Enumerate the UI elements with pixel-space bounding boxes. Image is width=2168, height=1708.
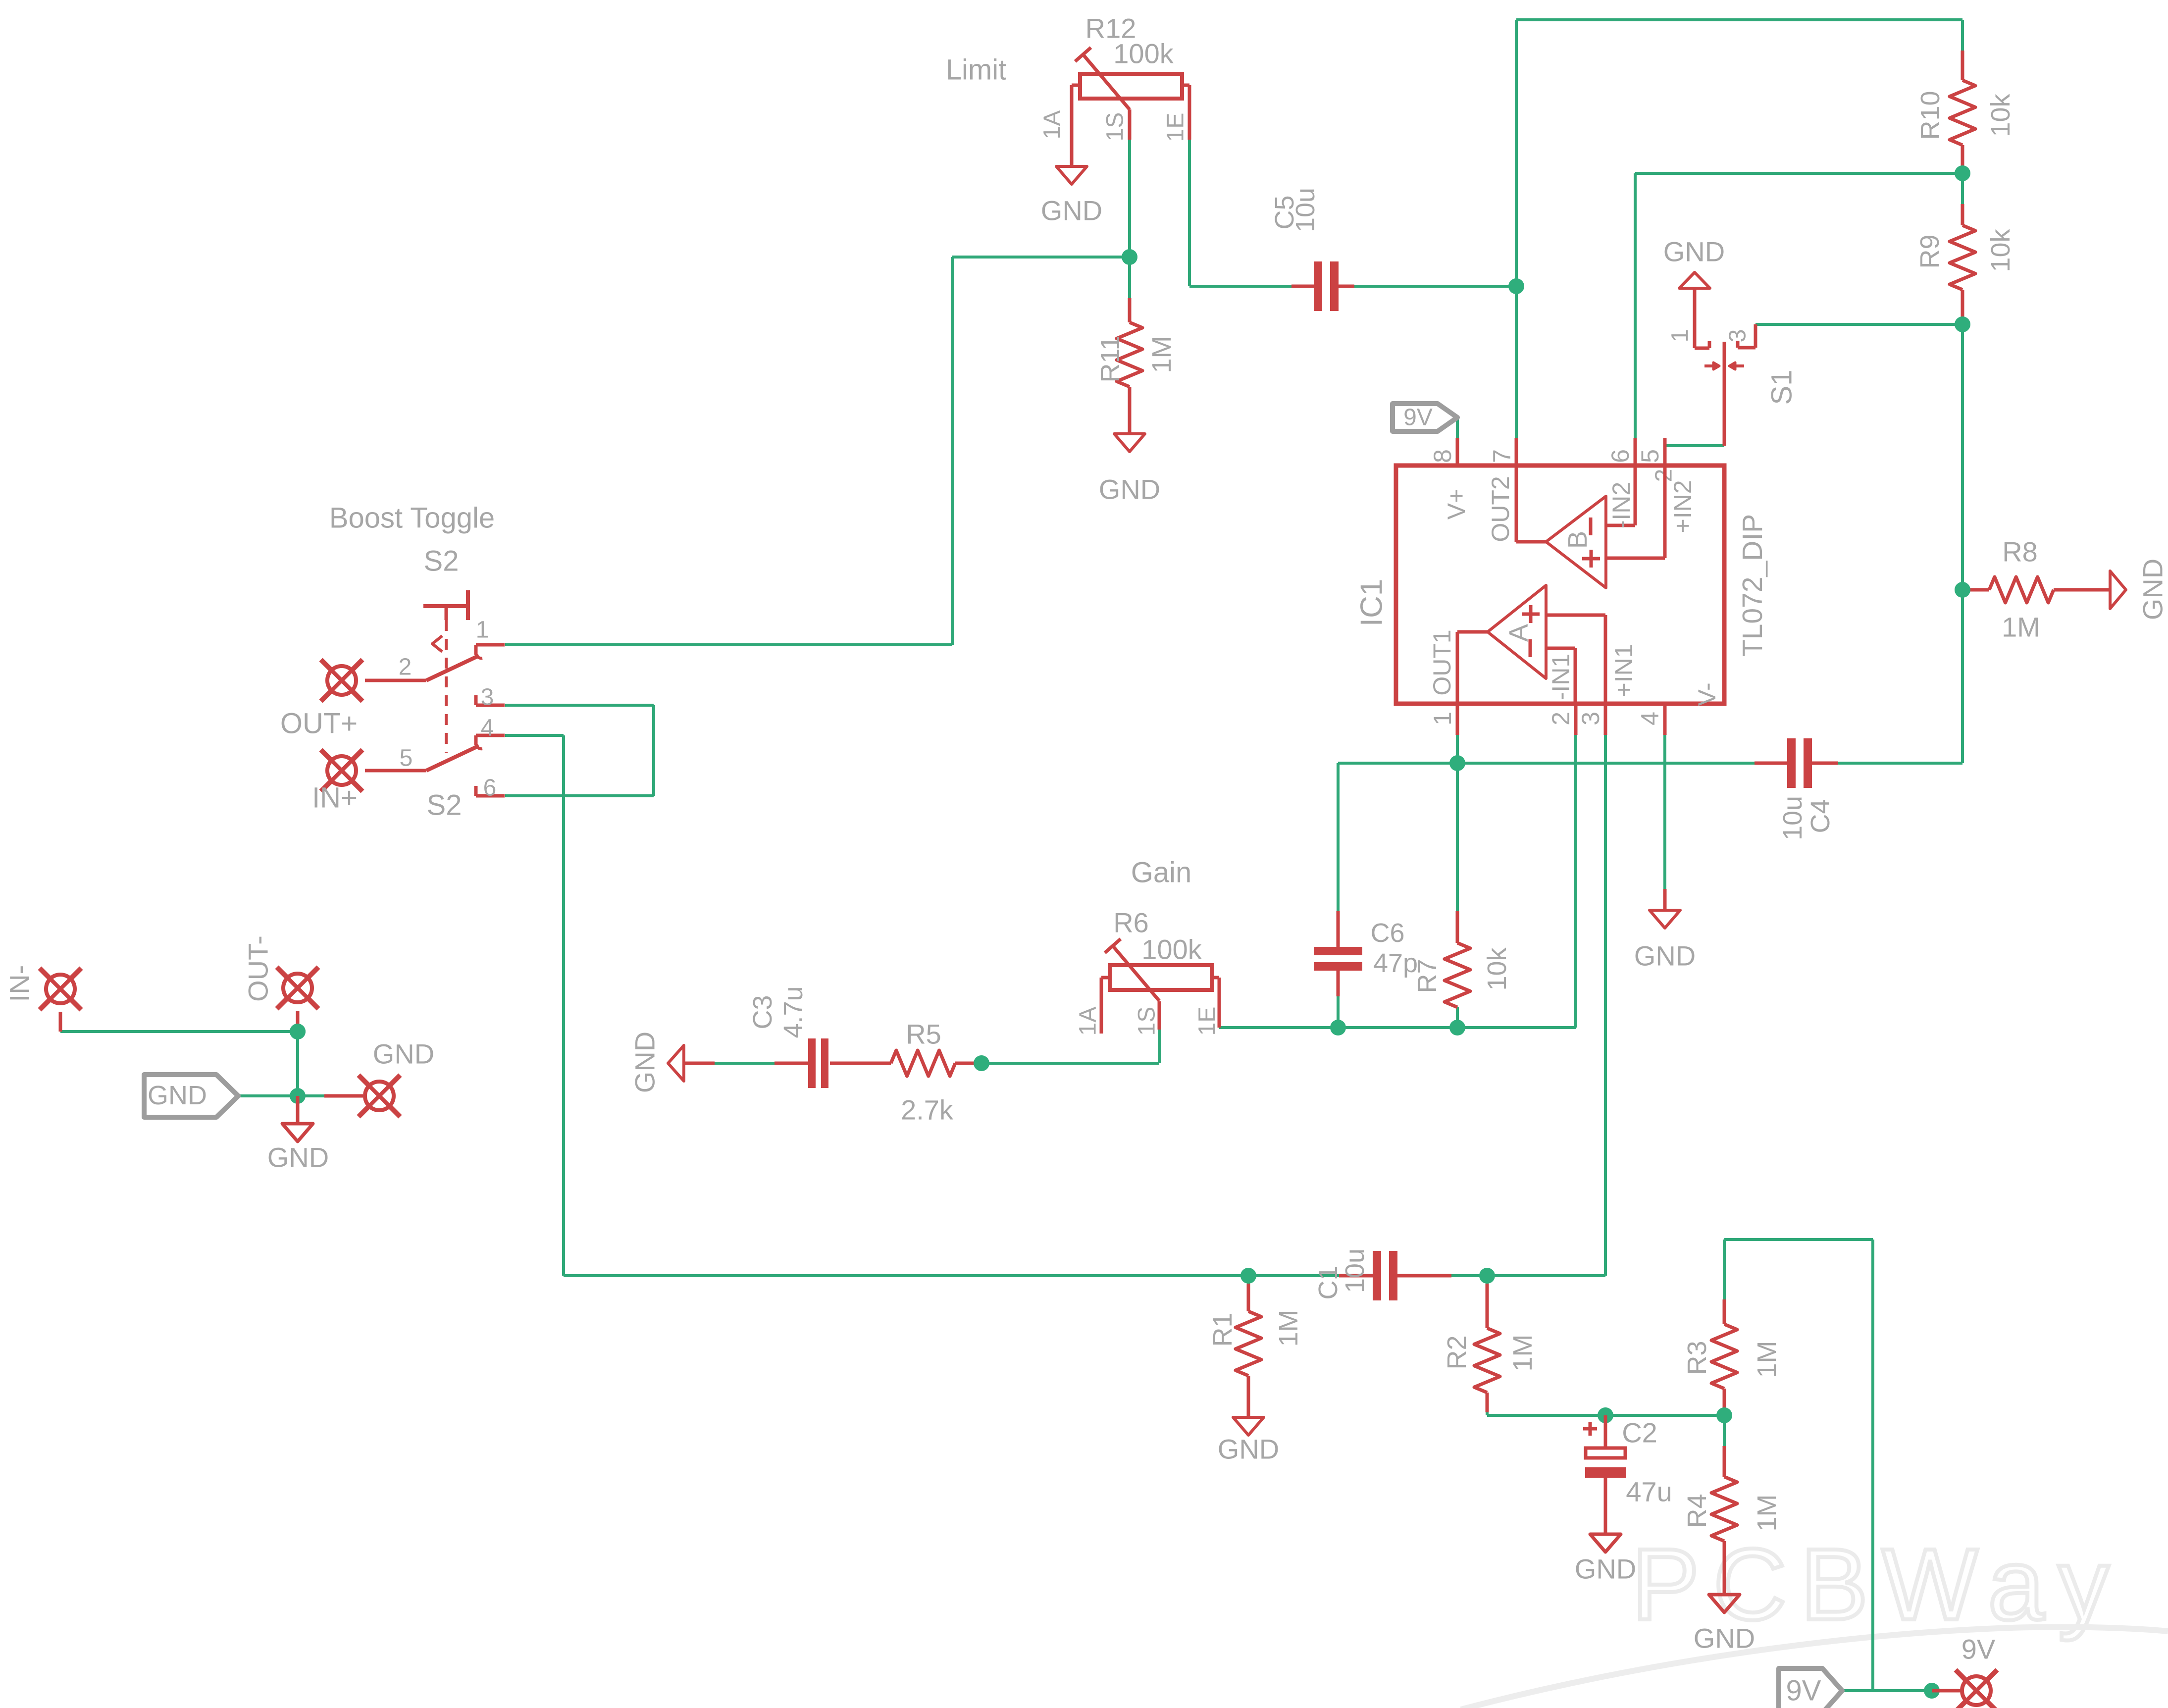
svg-text:C3: C3: [748, 995, 777, 1029]
svg-text:2: 2: [399, 654, 412, 680]
svg-text:4: 4: [481, 715, 494, 741]
svg-text:2.7k: 2.7k: [901, 1094, 954, 1126]
svg-text:4.7u: 4.7u: [778, 986, 808, 1038]
svg-text:10u: 10u: [1778, 796, 1807, 840]
svg-text:GND: GND: [1634, 940, 1696, 972]
svg-text:1E: 1E: [1194, 1007, 1221, 1036]
svg-text:R7: R7: [1412, 959, 1442, 993]
svg-text:GND: GND: [1663, 236, 1725, 267]
svg-text:OUT2: OUT2: [1487, 476, 1514, 542]
svg-text:1A: 1A: [1039, 110, 1066, 140]
svg-text:1S: 1S: [1134, 1007, 1160, 1036]
svg-text:100k: 100k: [1113, 38, 1174, 69]
svg-text:10k: 10k: [1482, 947, 1512, 990]
svg-text:IC1: IC1: [1355, 579, 1389, 626]
svg-text:GND: GND: [1099, 474, 1160, 505]
svg-text:2: 2: [1547, 712, 1575, 725]
svg-text:5: 5: [400, 745, 413, 772]
svg-text:47u: 47u: [1626, 1476, 1672, 1507]
svg-text:OUT+: OUT+: [280, 708, 358, 740]
svg-text:10k: 10k: [1986, 228, 2015, 272]
svg-text:B: B: [1563, 531, 1593, 549]
svg-text:1M: 1M: [1508, 1334, 1538, 1371]
svg-text:10u: 10u: [1290, 188, 1320, 232]
svg-text:R3: R3: [1682, 1341, 1712, 1375]
svg-text:3: 3: [1725, 329, 1751, 343]
svg-text:9V: 9V: [1962, 1634, 1996, 1665]
svg-text:R9: R9: [1915, 234, 1945, 268]
svg-text:OUT-: OUT-: [243, 935, 274, 1002]
svg-text:GND: GND: [1041, 195, 1102, 226]
svg-text:47p: 47p: [1373, 948, 1418, 978]
svg-text:+IN1: +IN1: [1610, 644, 1638, 697]
svg-text:6: 6: [483, 775, 497, 801]
svg-text:IN+: IN+: [312, 782, 358, 814]
svg-text:V-: V-: [1693, 682, 1721, 706]
svg-text:C2: C2: [1622, 1417, 1657, 1449]
svg-text:C6: C6: [1370, 918, 1404, 948]
svg-text:7: 7: [1488, 449, 1516, 463]
svg-text:9V: 9V: [1403, 405, 1433, 431]
svg-text:S2: S2: [424, 545, 459, 577]
svg-text:10k: 10k: [1986, 93, 2015, 137]
svg-text:GND: GND: [629, 1032, 661, 1093]
svg-text:8: 8: [1429, 449, 1456, 463]
svg-text:9V: 9V: [1786, 1675, 1821, 1707]
svg-text:A: A: [1504, 624, 1534, 642]
svg-text:R8: R8: [2002, 536, 2038, 568]
svg-text:+IN2: +IN2: [1669, 480, 1697, 533]
svg-text:R1: R1: [1208, 1312, 1238, 1346]
svg-text:1A: 1A: [1075, 1007, 1101, 1036]
svg-text:C1: C1: [1313, 1265, 1343, 1299]
svg-text:R2: R2: [1442, 1335, 1472, 1369]
svg-text:1M: 1M: [1147, 336, 1177, 373]
svg-text:R5: R5: [906, 1019, 941, 1050]
svg-text:GND: GND: [2137, 559, 2168, 620]
svg-text:GND: GND: [1218, 1434, 1279, 1465]
svg-text:R4: R4: [1682, 1494, 1712, 1528]
svg-text:C4: C4: [1806, 799, 1835, 833]
svg-text:R11: R11: [1095, 335, 1125, 382]
svg-text:Limit: Limit: [946, 54, 1006, 86]
svg-text:Boost Toggle: Boost Toggle: [329, 502, 495, 534]
svg-text:5: 5: [1636, 449, 1664, 463]
svg-text:1M: 1M: [1752, 1494, 1782, 1531]
svg-text:1M: 1M: [1274, 1309, 1303, 1346]
svg-text:1M: 1M: [2002, 612, 2040, 643]
svg-text:1: 1: [476, 617, 489, 643]
svg-text:GND: GND: [148, 1081, 207, 1110]
svg-text:GND: GND: [267, 1142, 329, 1173]
svg-text:OUT1: OUT1: [1428, 629, 1456, 695]
svg-text:GND: GND: [1694, 1623, 1755, 1654]
svg-text:GND: GND: [1575, 1553, 1636, 1585]
svg-text:V+: V+: [1443, 489, 1470, 520]
svg-text:Gain: Gain: [1131, 857, 1192, 889]
svg-text:GND: GND: [373, 1038, 434, 1070]
svg-text:10u: 10u: [1340, 1248, 1370, 1293]
svg-text:1: 1: [1667, 329, 1694, 343]
svg-text:4: 4: [1636, 712, 1664, 725]
svg-text:1S: 1S: [1102, 112, 1129, 142]
svg-text:1E: 1E: [1163, 113, 1189, 142]
svg-text:S2: S2: [427, 789, 462, 822]
svg-text:6: 6: [1606, 449, 1634, 463]
svg-text:1M: 1M: [1752, 1341, 1782, 1378]
svg-text:100k: 100k: [1141, 934, 1202, 965]
svg-text:S1: S1: [1766, 370, 1798, 405]
svg-text:IN-: IN-: [4, 965, 35, 1002]
svg-text:-IN2: -IN2: [1607, 482, 1635, 528]
svg-text:TL072_DIP: TL072_DIP: [1737, 514, 1768, 657]
svg-text:3: 3: [481, 684, 494, 711]
svg-text:R10: R10: [1915, 91, 1945, 140]
svg-text:3: 3: [1577, 712, 1604, 725]
svg-text:-IN1: -IN1: [1547, 654, 1575, 700]
svg-text:1: 1: [1429, 712, 1456, 725]
